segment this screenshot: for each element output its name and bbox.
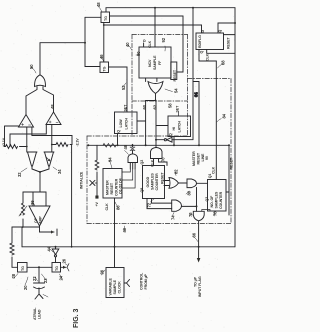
svg-text:VARIABLE: VARIABLE bbox=[109, 277, 113, 295]
svg-text:CLK: CLK bbox=[105, 203, 109, 211]
svg-text:86: 86 bbox=[116, 205, 121, 210]
svg-text:90: 90 bbox=[205, 156, 209, 160]
svg-text:76: 76 bbox=[188, 212, 193, 217]
svg-text:Q: Q bbox=[169, 133, 173, 136]
svg-text:46: 46 bbox=[99, 54, 104, 59]
svg-text:RESET: RESET bbox=[197, 152, 201, 164]
svg-text:44: 44 bbox=[47, 246, 52, 251]
svg-text:RD/FLG: RD/FLG bbox=[198, 35, 202, 48]
svg-text:LEAD: LEAD bbox=[38, 309, 42, 319]
svg-text:Q1 Q2 Q4: Q1 Q2 Q4 bbox=[119, 178, 123, 194]
svg-text:FROM µP: FROM µP bbox=[144, 273, 148, 289]
svg-text:Q: Q bbox=[218, 30, 222, 33]
svg-text:CLK: CLK bbox=[151, 159, 155, 167]
svg-text:94: 94 bbox=[108, 157, 113, 162]
svg-text:CLOCK: CLOCK bbox=[118, 281, 122, 294]
svg-text:58: 58 bbox=[168, 103, 173, 108]
svg-text:+V: +V bbox=[95, 202, 99, 207]
svg-text:SAMPLE: SAMPLE bbox=[153, 55, 157, 70]
svg-text:SET: SET bbox=[176, 105, 180, 113]
svg-text:24: 24 bbox=[59, 275, 64, 280]
svg-text:HI: HI bbox=[172, 127, 176, 130]
svg-text:32: 32 bbox=[17, 172, 22, 177]
svg-text:46: 46 bbox=[123, 144, 128, 149]
svg-text:84: 84 bbox=[222, 113, 227, 118]
svg-text:Q8: Q8 bbox=[140, 188, 144, 193]
svg-text:COUNTER: COUNTER bbox=[155, 173, 159, 191]
svg-text:66: 66 bbox=[192, 232, 197, 237]
svg-text:SAMPLES: SAMPLES bbox=[151, 173, 155, 190]
svg-text:60: 60 bbox=[142, 104, 147, 109]
svg-text:TG: TG bbox=[103, 66, 107, 71]
svg-text:40: 40 bbox=[125, 42, 130, 47]
svg-text:LATCH: LATCH bbox=[125, 118, 129, 130]
svg-text:INPUT FLAG: INPUT FLAG bbox=[198, 276, 202, 297]
svg-text:Q: Q bbox=[199, 51, 203, 54]
svg-text:CLK: CLK bbox=[206, 53, 210, 61]
svg-text:RESET: RESET bbox=[230, 157, 234, 169]
svg-text:72: 72 bbox=[147, 202, 152, 207]
svg-text:28: 28 bbox=[11, 273, 16, 278]
svg-text:LATCH: LATCH bbox=[178, 121, 182, 133]
svg-text:TG: TG bbox=[55, 266, 59, 271]
svg-text:+2.1V: +2.1V bbox=[2, 137, 6, 147]
svg-text:RESET: RESET bbox=[110, 182, 114, 194]
svg-text:TO µP: TO µP bbox=[194, 276, 198, 287]
svg-text:NO. OF: NO. OF bbox=[210, 195, 214, 208]
svg-text:CONTROL: CONTROL bbox=[140, 272, 144, 290]
svg-text:48: 48 bbox=[96, 2, 101, 7]
svg-text:Q2: Q2 bbox=[140, 160, 144, 165]
svg-text:NCV: NCV bbox=[148, 59, 152, 67]
svg-text:OP: OP bbox=[34, 217, 38, 223]
svg-text:90: 90 bbox=[136, 51, 141, 56]
svg-text:RESET: RESET bbox=[227, 37, 231, 49]
svg-text:26: 26 bbox=[62, 258, 67, 263]
svg-text:INITIALIZE: INITIALIZE bbox=[80, 171, 84, 189]
svg-text:RESET: RESET bbox=[161, 172, 165, 184]
svg-text:-2.1V: -2.1V bbox=[76, 138, 80, 147]
svg-text:54: 54 bbox=[174, 88, 179, 93]
svg-text:AMP: AMP bbox=[39, 216, 43, 224]
svg-text:Q2: Q2 bbox=[205, 197, 209, 202]
svg-text:MASTER: MASTER bbox=[106, 180, 110, 195]
svg-text:ATRIAL: ATRIAL bbox=[33, 307, 37, 320]
svg-text:GOOD: GOOD bbox=[146, 176, 150, 187]
svg-text:64: 64 bbox=[194, 92, 199, 97]
svg-text:SAMPLES: SAMPLES bbox=[215, 191, 219, 208]
svg-text:62: 62 bbox=[153, 104, 158, 109]
svg-text:34: 34 bbox=[57, 169, 62, 174]
svg-text:70: 70 bbox=[161, 157, 166, 162]
svg-text:MASTER: MASTER bbox=[192, 151, 196, 166]
svg-text:52: 52 bbox=[121, 85, 126, 90]
svg-text:78: 78 bbox=[213, 211, 218, 216]
svg-text:SAMPLE: SAMPLE bbox=[113, 279, 117, 294]
svg-text:23: 23 bbox=[43, 278, 48, 283]
svg-text:92: 92 bbox=[161, 37, 166, 42]
svg-text:LOW: LOW bbox=[119, 119, 123, 128]
svg-text:48: 48 bbox=[50, 104, 55, 109]
svg-text:Q: Q bbox=[117, 130, 121, 133]
svg-text:RESET: RESET bbox=[173, 69, 177, 81]
svg-text:80: 80 bbox=[187, 190, 192, 195]
svg-text:COUNTER: COUNTER bbox=[219, 191, 223, 209]
svg-text:22: 22 bbox=[32, 276, 37, 281]
svg-text:20: 20 bbox=[23, 285, 28, 290]
svg-text:82: 82 bbox=[174, 169, 179, 174]
svg-text:30: 30 bbox=[30, 200, 35, 205]
svg-text:FIG. 3: FIG. 3 bbox=[73, 308, 80, 328]
svg-text:CLK: CLK bbox=[212, 166, 216, 174]
svg-text:50: 50 bbox=[29, 64, 34, 69]
svg-text:SET: SET bbox=[124, 104, 128, 112]
svg-text:TG: TG bbox=[21, 266, 25, 271]
svg-text:74: 74 bbox=[171, 215, 176, 220]
svg-text:TG: TG bbox=[104, 16, 108, 21]
svg-text:68: 68 bbox=[221, 60, 226, 65]
svg-text:CLK: CLK bbox=[148, 40, 152, 48]
